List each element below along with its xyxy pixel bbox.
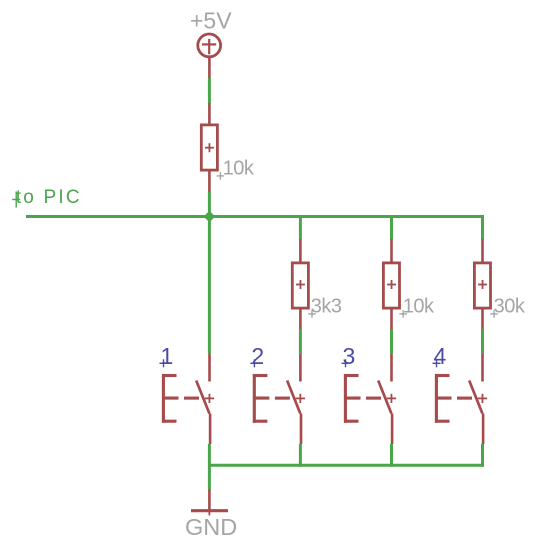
wire bus to R3 <box>390 215 393 239</box>
wire to PIC bus <box>26 215 484 218</box>
svg-text:10k: 10k <box>403 296 435 318</box>
net label to PIC <box>12 187 82 208</box>
junction node <box>204 211 216 223</box>
resistor R1 <box>201 103 217 193</box>
svg-text:to PIC: to PIC <box>16 187 82 208</box>
resistor R4 <box>474 239 490 329</box>
switch S2 <box>253 354 305 444</box>
wire R3 to S3 <box>390 329 393 354</box>
value 10k (R3) <box>399 296 435 318</box>
wire bus to GND <box>208 465 211 490</box>
value 10k (R1) <box>217 158 255 180</box>
wire R2 to S2 <box>299 329 302 354</box>
wire R1 to junction <box>208 192 211 217</box>
wire junction to S1 <box>208 217 211 355</box>
svg-text:3: 3 <box>343 343 356 369</box>
name 2 (S2) <box>250 343 264 369</box>
svg-text:3k3: 3k3 <box>311 296 342 318</box>
svg-text:10k: 10k <box>223 158 255 180</box>
svg-text:2: 2 <box>251 343 264 369</box>
svg-text:GND: GND <box>185 514 237 540</box>
svg-text:4: 4 <box>434 343 447 369</box>
name 3 (S3) <box>342 343 356 369</box>
wire S2 to bottom bus <box>299 444 302 467</box>
wire R4 to S4 <box>481 329 484 354</box>
wire S4 to bottom bus <box>481 444 484 467</box>
switch S1 <box>162 354 214 444</box>
value 3k3 (R2) <box>308 296 342 318</box>
value 30k (R4) <box>490 296 526 318</box>
wire +5V to R1 <box>208 78 211 103</box>
wire S1 to bottom bus <box>208 444 211 467</box>
bottom bus wire <box>208 464 484 467</box>
wire bus to R2 <box>299 215 302 239</box>
supply symbol +5V <box>198 34 221 80</box>
svg-text:1: 1 <box>161 343 174 369</box>
switch S3 <box>344 354 396 444</box>
resistor R3 <box>383 239 399 329</box>
wire S3 to bottom bus <box>390 444 393 467</box>
ground GND <box>191 490 228 516</box>
switch S4 <box>435 354 487 444</box>
name 1 (S1) <box>160 343 174 369</box>
name 4 (S4) <box>433 343 447 369</box>
wire bus corner to R4 <box>481 215 484 239</box>
resistor R2 <box>292 239 308 329</box>
svg-text:30k: 30k <box>494 296 526 318</box>
svg-text:+5V: +5V <box>190 8 232 34</box>
